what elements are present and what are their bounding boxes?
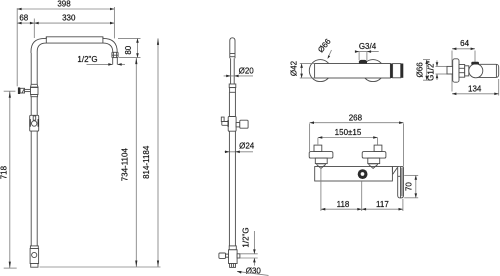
label Ø30 base: [237, 266, 269, 275]
dimension 150±15: [318, 128, 378, 145]
mixer body tube: [315, 64, 404, 79]
dimension 814-1184: [142, 38, 159, 267]
G3/4 outlet stub: [359, 60, 367, 64]
side view wall nipple G1/2: [447, 66, 453, 74]
bottom elbow outlet right: [237, 254, 240, 258]
side view thermostat knob circle: [469, 64, 483, 78]
right inlet flange: [362, 152, 386, 159]
dimension G3/4: [355, 42, 379, 60]
riser tube upper: [31, 53, 37, 84]
svg-text:814-1184: 814-1184: [142, 145, 151, 179]
dimension Ø24: [225, 141, 255, 153]
riser centre extension line: [33, 19, 35, 39]
dimension 330: [34, 14, 114, 25]
side view body tube end-on: [474, 64, 499, 77]
mixer right escutcheon circle Ø66: [362, 60, 384, 82]
bottom elbow left knob: [219, 253, 229, 258]
thermostatic mixer body: [315, 167, 393, 182]
slide bar lower tube Ø24 lower part: [229, 131, 235, 246]
side view neck: [465, 66, 469, 76]
shower arm hose nipple: [113, 58, 118, 65]
riser tube lower: [31, 131, 37, 246]
svg-text:Ø24: Ø24: [239, 141, 255, 150]
svg-text:1/2"G: 1/2"G: [77, 55, 97, 64]
slide bar upper tube Ø20: [231, 58, 235, 84]
wall union tee: [31, 84, 39, 96]
wall extension line: [16, 8, 18, 86]
svg-text:150±15: 150±15: [335, 128, 362, 137]
svg-text:Ø42: Ø42: [289, 60, 298, 76]
side view escutcheon flange: [453, 59, 459, 82]
right inlet nut: [374, 145, 382, 152]
right escutcheon plate edge-on: [398, 167, 404, 198]
right outlet housing: [392, 167, 400, 175]
shower arm nut 1/2G: [112, 52, 118, 57]
svg-text:330: 330: [62, 14, 76, 23]
slide bar slider block: [221, 117, 248, 132]
handshower holder collar: [30, 246, 38, 249]
dimension 80: [118, 38, 141, 57]
label 1/2"G arm: [77, 55, 125, 66]
svg-text:G3/4: G3/4: [359, 42, 377, 51]
mixer left escutcheon circle Ø66: [309, 60, 331, 82]
wall union body: [20, 88, 24, 93]
bottom elbow foot: [230, 264, 236, 268]
bottom elbow collar: [229, 246, 236, 250]
left inlet cone: [316, 164, 326, 169]
label G1/2": [426, 60, 447, 80]
slide bar lower tube Ø24 upper part: [229, 92, 235, 116]
svg-text:68: 68: [19, 14, 28, 23]
left inlet nut: [314, 145, 322, 152]
dimension 268: [310, 113, 404, 166]
dimension 734-1104: [120, 58, 137, 267]
slide bar clamp collar: [229, 84, 236, 92]
dimension 117: [362, 199, 403, 211]
dimension Ø20: [224, 67, 255, 78]
svg-text:734-1104: 734-1104: [120, 148, 129, 182]
dimension 68: [17, 14, 34, 25]
svg-text:268: 268: [349, 113, 363, 122]
wall union flange: [18, 87, 20, 94]
handshower holder foot: [31, 264, 38, 268]
dimension 718: [0, 91, 17, 268]
slide bar top cap: [230, 38, 235, 59]
riser slider block: [30, 115, 39, 131]
dimension 70: [404, 175, 418, 197]
shower arch tube: [31, 37, 117, 53]
right inlet neck: [368, 158, 380, 164]
side view hex nut: [459, 65, 465, 78]
wall union pipe: [25, 89, 31, 91]
dimension 398: [17, 0, 114, 10]
svg-text:117: 117: [376, 200, 389, 209]
dimension 1/2"G outlet: [240, 227, 258, 265]
bottom baseline: [40, 266, 161, 268]
dimension 64: [452, 39, 475, 50]
label Ø66 with leader: [316, 37, 333, 59]
svg-text:Ø66: Ø66: [415, 62, 424, 78]
svg-text:G1/2": G1/2": [426, 61, 435, 81]
svg-text:64: 64: [460, 39, 469, 48]
dimension 134: [452, 79, 499, 96]
side view dark cap: [471, 62, 479, 65]
left inlet flange: [309, 152, 333, 159]
svg-text:1/2"G: 1/2"G: [242, 227, 251, 247]
dimension 118: [321, 169, 362, 211]
riser tube middle: [31, 97, 37, 116]
side view wall extension line: [451, 51, 453, 92]
svg-text:80: 80: [124, 45, 133, 54]
bottom elbow block: [229, 250, 238, 264]
svg-text:Ø20: Ø20: [239, 67, 255, 76]
right inlet cone: [368, 164, 378, 169]
svg-text:134: 134: [468, 85, 482, 94]
svg-text:398: 398: [57, 0, 71, 9]
dimension Ø42: [289, 60, 314, 78]
svg-text:118: 118: [337, 200, 350, 209]
left inlet neck: [315, 158, 327, 164]
svg-text:70: 70: [405, 182, 414, 191]
handshower holder block: [30, 249, 38, 264]
temperature knob front: [358, 169, 368, 179]
arm centre extension line: [113, 7, 115, 38]
dimension Ø66 right: [415, 60, 430, 81]
side view valve centre extension line: [474, 51, 476, 63]
svg-text:718: 718: [0, 165, 8, 179]
